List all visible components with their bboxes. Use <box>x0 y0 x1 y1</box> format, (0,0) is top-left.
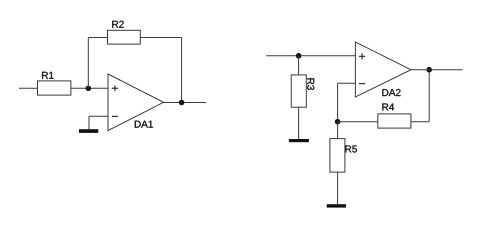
node C junction dot <box>335 119 341 125</box>
wire top to R2 <box>88 37 107 39</box>
pin - of DA2 <box>359 83 365 85</box>
node DA2 output junction dot <box>426 67 432 73</box>
resistor R5 <box>330 139 357 173</box>
node DA1 output junction dot <box>179 100 185 106</box>
wire DA1 output <box>164 102 207 104</box>
wire feedback left vertical <box>87 38 89 89</box>
wire node C to R4 <box>338 121 378 123</box>
wire node B down to R3 <box>298 56 300 75</box>
wire R5 to ground <box>337 172 339 204</box>
wire - input down to node C <box>337 83 339 121</box>
wire input top of circuit 2 <box>266 55 355 57</box>
wire R1 to DA1 + input <box>71 87 108 89</box>
op-amp DA1 <box>108 74 164 131</box>
wire DA2 output <box>411 69 463 71</box>
node A junction dot <box>86 86 92 92</box>
ground (R5) <box>327 204 346 207</box>
wire input left of R1 <box>19 87 38 89</box>
op-amp DA2 <box>355 42 411 97</box>
wire DA2 - input <box>338 82 356 84</box>
ground (R3) <box>289 139 309 142</box>
wire feedback vertical up to output <box>428 70 430 122</box>
wire DA1 - input <box>89 115 108 117</box>
node B junction dot <box>296 53 302 59</box>
ground (DA1 - input) <box>79 129 98 133</box>
resistor R4 <box>378 104 411 129</box>
wire down to ground <box>88 116 90 129</box>
wire node C down to R5 <box>337 122 339 139</box>
pin - of DA1 <box>112 115 118 117</box>
wire R2 to right vertical <box>140 37 181 39</box>
pin + of DA1 <box>112 85 118 91</box>
resistor R3 <box>291 75 314 107</box>
resistor R2 <box>108 21 141 44</box>
pin + of DA2 <box>359 53 365 59</box>
wire feedback right vertical <box>181 38 183 103</box>
wire R3 to ground <box>298 107 300 139</box>
wire R4 to right vertical <box>411 121 429 123</box>
resistor R1 <box>38 72 71 95</box>
